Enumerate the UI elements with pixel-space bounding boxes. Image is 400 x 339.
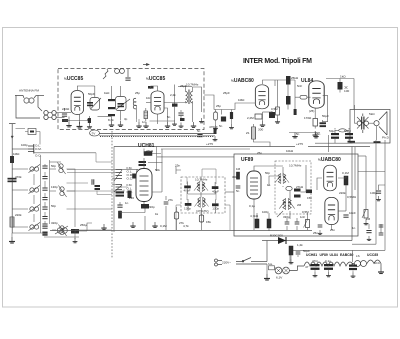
svg-text:50µF: 50µF <box>303 249 310 253</box>
tube UABC80 triode <box>325 197 338 224</box>
svg-text:2M: 2M <box>297 203 302 207</box>
svg-text:0,1µ: 0,1µ <box>249 204 255 208</box>
resistor at FM input <box>62 119 68 122</box>
grounds row in FM box <box>136 122 141 127</box>
svg-text:25pF: 25pF <box>180 84 187 88</box>
svg-text:6,3V: 6,3V <box>276 276 283 280</box>
tiny value labels scattered <box>13 76 381 265</box>
svg-text:25kΩ: 25kΩ <box>291 76 299 80</box>
svg-text:130p: 130p <box>184 206 191 210</box>
svg-text:6CC: 6CC <box>374 261 381 265</box>
svg-text:130p: 130p <box>212 207 219 211</box>
svg-text:220p: 220p <box>148 205 155 209</box>
svg-text:25p: 25p <box>216 104 221 108</box>
fuse + lamps <box>269 266 275 270</box>
cathode parts under UL84 <box>313 119 318 127</box>
FM tuner dashed box <box>58 69 204 130</box>
svg-text:1n: 1n <box>125 201 129 205</box>
ground under tube V1 <box>79 114 81 124</box>
svg-text:130p: 130p <box>51 185 58 189</box>
svg-text:4,7kΩ: 4,7kΩ <box>250 214 259 218</box>
anode wire <box>204 80 295 115</box>
svg-text:300: 300 <box>258 128 263 132</box>
svg-text:330p: 330p <box>283 215 290 219</box>
47k resistor <box>144 152 152 156</box>
svg-text:UF89: UF89 <box>320 253 328 257</box>
svg-text:25n: 25n <box>330 228 335 232</box>
grid label oval <box>300 95 307 99</box>
svg-text:50k: 50k <box>155 168 160 172</box>
right side vertical wires <box>290 140 385 262</box>
capacitor C-L1 <box>42 166 47 168</box>
vertical dotted partition <box>111 131 113 258</box>
svg-text:170Ω: 170Ω <box>304 116 312 120</box>
coax connector circles <box>44 111 56 120</box>
divider chain at 277.5 <box>277 80 279 107</box>
svg-text:(470kHz): (470kHz) <box>196 209 209 213</box>
ratio detector dashed box <box>275 161 311 214</box>
svg-text:1MΩ: 1MΩ <box>13 152 20 156</box>
svg-text:470k: 470k <box>15 175 22 179</box>
svg-text:10n: 10n <box>146 96 151 100</box>
svg-text:½UCC85: ½UCC85 <box>64 76 83 82</box>
svg-text:(25): (25) <box>309 109 314 113</box>
svg-text:1M: 1M <box>236 167 241 171</box>
wires output <box>355 105 377 140</box>
svg-text:50p: 50p <box>51 164 56 168</box>
variable cap 1 (trimmer) <box>90 98 101 111</box>
svg-text:240Ω: 240Ω <box>62 107 70 111</box>
tube UABC80 diodes <box>324 165 337 191</box>
diode B30C300 <box>278 237 286 244</box>
output box with transformer and speaker <box>350 110 390 144</box>
svg-text:25p: 25p <box>135 91 140 95</box>
svg-text:30k: 30k <box>232 175 237 179</box>
svg-text:50µF: 50µF <box>322 114 329 118</box>
cap + resistor left of IF <box>172 104 178 107</box>
coil L2 OM <box>29 185 41 193</box>
svg-text:220: 220 <box>129 196 134 200</box>
components on left line <box>10 156 14 163</box>
tube V1 half UCC85 <box>71 91 83 115</box>
svg-text:½UABC80: ½UABC80 <box>318 157 341 163</box>
variable cap 2 (trimmer) <box>116 97 131 111</box>
svg-text:220V~: 220V~ <box>222 261 231 265</box>
svg-text:50p: 50p <box>51 204 56 208</box>
svg-text:5n: 5n <box>197 129 201 133</box>
svg-text:Z1: Z1 <box>246 131 250 135</box>
tube UL84 <box>309 81 324 108</box>
svg-text:EABC80: EABC80 <box>340 253 353 257</box>
filament feed drop <box>352 250 354 262</box>
svg-text:1kΩ: 1kΩ <box>340 75 346 79</box>
svg-text:100p: 100p <box>21 143 28 147</box>
svg-text:2,2M: 2,2M <box>247 116 254 120</box>
-7V bubble <box>90 130 100 136</box>
left resistor in box <box>236 172 239 179</box>
svg-text:O.M.: O.M. <box>35 147 42 151</box>
AM antenna T <box>9 124 16 234</box>
RD resistors <box>294 189 301 192</box>
heater line + grounds hanging <box>289 132 320 134</box>
capacitor C-L3 <box>42 207 47 209</box>
parts under tube UABC80 <box>255 114 262 119</box>
coil L3 OC <box>29 204 41 212</box>
svg-text:10,7MHz: 10,7MHz <box>289 164 302 168</box>
cap right of switch <box>132 174 136 179</box>
filament arcs <box>304 260 381 268</box>
svg-text:27k: 27k <box>168 198 173 202</box>
band switch stacks <box>114 170 122 193</box>
svg-text:O.C.: O.C. <box>127 177 134 181</box>
svg-text:50pF: 50pF <box>88 92 95 96</box>
svg-text:100p: 100p <box>370 191 377 195</box>
bottom row in box <box>285 222 290 224</box>
svg-text:5p: 5p <box>87 118 91 122</box>
+275 rail <box>114 146 370 148</box>
svg-text:B30C300: B30C300 <box>270 234 283 238</box>
svg-text:0,1M: 0,1M <box>342 171 349 175</box>
switch contact stack top <box>12 144 34 154</box>
parts under tube <box>141 204 149 209</box>
cap below switch <box>116 192 125 194</box>
cap right <box>379 225 384 227</box>
chassis hatched line under FM box <box>99 133 215 135</box>
wires FM input to tube1 <box>56 108 88 121</box>
svg-text:40pF: 40pF <box>184 189 191 193</box>
capacitor IF-T2 left 130p <box>185 203 192 206</box>
coil left of tube2 <box>133 98 136 109</box>
svg-text:5n: 5n <box>219 124 223 128</box>
mid caps column <box>108 99 115 101</box>
left drop of rail <box>113 147 115 233</box>
cap at FM input <box>62 114 67 116</box>
tube V2 half UCC85 <box>151 91 164 114</box>
resistor below IF box <box>199 215 203 222</box>
wires in RD <box>269 165 306 219</box>
svg-text:25n: 25n <box>313 231 318 235</box>
svg-text:27kΩ: 27kΩ <box>296 185 304 189</box>
filter resistor on +275 drop <box>289 246 293 255</box>
svg-text:½UCC85: ½UCC85 <box>146 76 165 82</box>
svg-text:1n: 1n <box>352 226 356 230</box>
svg-text:47kΩ: 47kΩ <box>146 149 154 153</box>
secondary rail <box>161 148 250 150</box>
RD transformer bottom <box>279 198 294 210</box>
svg-text:1kΩ: 1kΩ <box>104 91 110 95</box>
svg-text:10kΩ: 10kΩ <box>286 149 294 153</box>
mains switch <box>236 258 267 265</box>
svg-text:+275: +275 <box>206 142 213 146</box>
svg-text:10,7MHz: 10,7MHz <box>186 83 199 87</box>
svg-text:1nF: 1nF <box>300 215 305 219</box>
right coils column <box>57 163 65 175</box>
coil L4 <box>29 222 41 230</box>
gnd bar under speaker <box>374 141 381 143</box>
RF choke vertical <box>252 127 256 139</box>
wires around IF box <box>176 166 234 230</box>
svg-text:5n: 5n <box>296 132 300 136</box>
svg-text:1,2k: 1,2k <box>297 243 303 247</box>
svg-text:47: 47 <box>305 265 309 269</box>
svg-text:0,5M: 0,5M <box>271 107 278 111</box>
svg-text:+275: +275 <box>296 142 303 146</box>
padder cap top <box>28 129 36 135</box>
svg-text:250µ: 250µ <box>80 223 87 227</box>
svg-text:0,1M: 0,1M <box>160 224 167 228</box>
svg-text:27k: 27k <box>179 221 184 225</box>
volume pot <box>362 210 368 219</box>
svg-text:UF89: UF89 <box>241 157 253 163</box>
svg-text:5n: 5n <box>236 189 240 193</box>
electrolytic caps 50+50 <box>331 133 339 135</box>
speaker <box>374 112 387 136</box>
svg-text:½UABC80: ½UABC80 <box>231 78 254 84</box>
svg-text:25n: 25n <box>257 151 262 155</box>
svg-text:2,2k: 2,2k <box>170 93 176 97</box>
caps column mid <box>42 177 47 179</box>
wire extras middle <box>67 149 230 230</box>
ground under switch <box>266 264 268 274</box>
svg-text:15k: 15k <box>206 220 211 224</box>
svg-text:ANTENNA FM: ANTENNA FM <box>19 89 39 93</box>
parts right of tube <box>174 212 178 219</box>
svg-text:100: 100 <box>344 89 349 93</box>
svg-text:3p: 3p <box>124 117 128 121</box>
tube UCH81 <box>136 169 152 202</box>
svg-text:10nF: 10nF <box>349 211 356 215</box>
chain right end ground <box>378 268 384 274</box>
svg-text:25pF: 25pF <box>223 91 230 95</box>
antenna FM symbol <box>15 96 44 119</box>
svg-text:fus.: fus. <box>268 262 273 266</box>
cap 5n <box>366 231 371 233</box>
tube UABC80 top <box>255 85 268 109</box>
coil L1 OL <box>29 164 41 172</box>
svg-text:0,5MΩ: 0,5MΩ <box>347 195 357 199</box>
FM dipole balun on box top edge <box>103 64 149 80</box>
IF transformer A <box>194 181 208 192</box>
pickup bottom left <box>42 226 47 228</box>
svg-text:0,5M: 0,5M <box>302 210 309 214</box>
RD transformer top <box>275 173 289 184</box>
svg-text:50p: 50p <box>265 171 270 175</box>
wires AM cluster <box>12 129 112 234</box>
screen resistors on wire <box>286 76 291 85</box>
svg-text:INTER Mod. Tripoli FM: INTER Mod. Tripoli FM <box>243 58 312 65</box>
svg-text:UCH81: UCH81 <box>306 253 317 257</box>
wires in FM box <box>64 86 185 124</box>
resistor between <box>144 111 148 119</box>
svg-text:220k: 220k <box>15 213 22 217</box>
cap blob above tube2 <box>148 86 154 89</box>
cap above tube <box>139 161 147 163</box>
svg-text:8,2k: 8,2k <box>108 118 114 122</box>
capacitor IF-T2 right 130p <box>212 203 219 206</box>
svg-text:1M: 1M <box>366 217 371 221</box>
cap blob + gnd left mid <box>88 118 91 123</box>
capacitor heater bypass 2 <box>324 264 333 266</box>
wires near choke <box>254 124 271 147</box>
svg-text:UL84: UL84 <box>301 78 313 84</box>
ground bus <box>50 230 312 232</box>
capacitor IF-T1 left 40pF <box>184 186 191 189</box>
svg-text:1n: 1n <box>267 183 271 187</box>
small ellipse <box>286 186 292 190</box>
cap 100p <box>376 191 381 193</box>
svg-text:320p: 320p <box>51 221 58 225</box>
svg-text:220k: 220k <box>339 191 346 195</box>
svg-text:4,7k: 4,7k <box>183 224 189 228</box>
grid chain left of tube <box>214 112 218 120</box>
svg-text:10,7MHz: 10,7MHz <box>195 178 208 182</box>
capacitor C-L4 <box>42 224 47 226</box>
svg-text:40pF: 40pF <box>212 189 219 193</box>
svg-text:50µF: 50µF <box>344 129 351 133</box>
svg-text:1MΩ: 1MΩ <box>238 98 245 102</box>
svg-text:UL84: UL84 <box>330 253 338 257</box>
svg-text:1n: 1n <box>142 120 146 124</box>
svg-text:0,1µ: 0,1µ <box>325 259 331 263</box>
svg-text:Ph.D: Ph.D <box>382 136 390 140</box>
svg-text:LS: LS <box>356 254 360 258</box>
feedthrough cap right of box <box>214 128 217 134</box>
right components in box <box>344 176 348 185</box>
svg-text:15k: 15k <box>307 196 312 200</box>
caps left of tube <box>92 179 94 184</box>
svg-text:47Ω: 47Ω <box>312 259 318 263</box>
tube UF89 <box>247 171 261 199</box>
svg-text:1k: 1k <box>155 212 159 216</box>
rectifier line <box>262 147 352 262</box>
svg-text:5n: 5n <box>317 132 321 136</box>
capacitor heater bypass 3 <box>349 265 357 267</box>
IF transformer B <box>195 197 209 208</box>
svg-text:100p: 100p <box>262 210 269 214</box>
capacitor C-L2 <box>42 188 47 190</box>
capacitor IF-T1 right 40pF <box>212 186 219 189</box>
svg-text:5nF: 5nF <box>297 84 302 88</box>
output transformer <box>357 114 369 134</box>
cap under balun <box>125 78 130 80</box>
dial lamps in chain <box>352 261 367 267</box>
svg-text:5n: 5n <box>167 115 171 119</box>
mains plug <box>215 259 223 266</box>
svg-text:5kΩ: 5kΩ <box>369 112 375 116</box>
svg-text:UCC85: UCC85 <box>367 253 378 257</box>
